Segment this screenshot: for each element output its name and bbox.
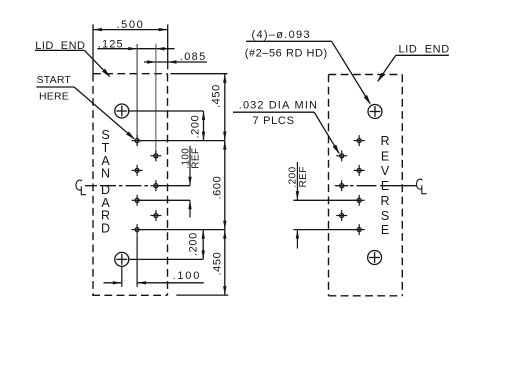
right plate outline right edge <box>401 75 403 296</box>
centerline symbol left <box>76 180 86 195</box>
row 4 centerline stub at CL <box>85 185 97 187</box>
bottom .100 extension line from fiducial <box>121 267 123 287</box>
svg-text:.500: .500 <box>117 19 145 31</box>
svg-text:R: R <box>380 134 389 148</box>
bottom fiducial target left plate <box>115 252 129 266</box>
dimension .200 bottom arrowhead up <box>202 230 205 239</box>
svg-text:R: R <box>380 194 389 208</box>
right plate outline left edge <box>328 75 330 296</box>
svg-text:.200: .200 <box>288 166 299 187</box>
right plate row 4 hole arm line <box>335 185 349 187</box>
top extension line for .450 <box>171 73 228 75</box>
dimension .100 REF line upper <box>189 146 191 186</box>
svg-text:7 PLCS: 7 PLCS <box>253 115 295 127</box>
right plate centerline stub to CL <box>397 185 418 187</box>
top fiducial line left plate <box>128 110 203 112</box>
dimension .500 line <box>93 29 168 31</box>
svg-text:.600: .600 <box>212 176 224 200</box>
right plate outline top edge <box>329 74 403 76</box>
hole B4 left plate <box>150 180 161 191</box>
dimension .500 right arrowhead <box>159 28 168 31</box>
svg-text:(4)–ø.093: (4)–ø.093 <box>252 29 311 41</box>
bottom .100 left arrowhead <box>137 281 146 284</box>
svg-text:D: D <box>101 222 110 236</box>
dimension .500 extension line left <box>92 24 94 73</box>
dimension .450 bottom arrowhead up <box>223 230 226 239</box>
dimension .450 top arrowhead up <box>223 74 226 83</box>
leader LID END left <box>35 50 111 77</box>
svg-text:START: START <box>37 74 72 86</box>
dimension .125 arrowhead at column B <box>156 47 165 50</box>
dimension .450 top line <box>224 74 226 141</box>
bottom fiducial line left plate <box>128 258 203 260</box>
dimension .200 REF line lower <box>296 230 298 249</box>
svg-text:REF: REF <box>191 148 202 169</box>
top fiducial target left plate <box>115 104 129 118</box>
dimension .500 extension line right <box>167 24 169 69</box>
dimension .450 bottom arrowhead down <box>223 286 226 295</box>
svg-text:V: V <box>381 164 390 178</box>
dimension .200 top arrowhead up <box>202 111 205 120</box>
svg-text:.125: .125 <box>98 38 124 50</box>
svg-text:(#2–56 RD HD): (#2–56 RD HD) <box>245 47 328 59</box>
bottom fiducial target right plate <box>368 251 382 265</box>
svg-text:E: E <box>381 179 389 193</box>
dimension .100 REF down arrowhead <box>188 177 191 186</box>
svg-text:LID END: LID END <box>399 44 450 56</box>
bottom extension line for .450 <box>176 294 228 296</box>
dimension .200 bottom line <box>202 230 204 260</box>
svg-text:LID END: LID END <box>35 40 85 52</box>
svg-text:.200: .200 <box>190 115 202 139</box>
svg-text:.100: .100 <box>173 270 202 282</box>
column B extension line <box>155 44 157 162</box>
left plate outline bottom edge <box>92 294 167 296</box>
left plate outline top edge <box>93 73 168 75</box>
right plate row 7 line <box>293 229 359 231</box>
row 4 centerline dash-dot <box>100 185 151 187</box>
row 4 solid line right of hole <box>156 185 190 187</box>
hole B7 right plate <box>354 224 365 235</box>
bottom .100 right arrowhead <box>113 281 122 284</box>
dimension .085 arrowhead at column B <box>147 60 156 63</box>
vertical label STANDARD <box>101 128 110 236</box>
centerline symbol right <box>416 179 426 194</box>
dimension .200 REF down arrowhead <box>296 191 299 200</box>
hole A4 right plate <box>336 180 347 191</box>
hole A6 right plate <box>336 210 347 221</box>
dimension .600 arrowhead down <box>223 221 226 230</box>
row 1 line <box>137 140 225 142</box>
hole A7 left plate <box>132 224 143 235</box>
dimension .125 arrowhead at column A <box>128 47 137 50</box>
dimension .600 line <box>224 141 226 230</box>
hole A2 right plate <box>336 150 347 161</box>
svg-text:R: R <box>101 209 110 223</box>
hole A3 left plate <box>132 165 143 176</box>
svg-text:T: T <box>102 141 110 155</box>
left plate outline left edge <box>92 74 94 296</box>
leader LID END right <box>377 55 449 82</box>
svg-text:E: E <box>381 223 389 237</box>
svg-text:N: N <box>101 167 110 181</box>
bottom .100 extension line from hole column A <box>136 235 138 287</box>
hole B1 right plate <box>354 135 365 146</box>
right plate row 5 line <box>293 199 359 201</box>
dimension .500 left arrowhead <box>93 28 102 31</box>
hole A1 left plate <box>132 135 143 146</box>
top fiducial target right plate <box>368 105 382 119</box>
svg-text:.200: .200 <box>188 232 200 256</box>
dimension .100 REF up arrowhead <box>188 201 191 210</box>
svg-text:.450: .450 <box>212 252 224 276</box>
dimension .200 top line <box>203 111 205 141</box>
svg-text:S: S <box>101 128 109 142</box>
dimension .600 arrowhead up <box>223 141 226 150</box>
right plate outline bottom edge <box>329 295 403 297</box>
svg-text:.032 DIA MIN: .032 DIA MIN <box>239 99 318 111</box>
svg-text:REF: REF <box>298 166 309 187</box>
column A extension line <box>136 44 138 146</box>
leader START HERE <box>36 87 135 140</box>
leader .032 DIA MIN <box>233 112 340 154</box>
dimension .200 REF line upper <box>296 162 298 200</box>
dimension .450 top arrowhead down <box>223 132 226 141</box>
hole A5 left plate <box>132 195 143 206</box>
bottom .100 dimension right tail <box>137 282 204 284</box>
svg-text:.085: .085 <box>180 51 207 63</box>
dimension .200 bottom arrowhead down <box>202 250 205 259</box>
hole B2 left plate <box>150 150 161 161</box>
svg-text:S: S <box>381 209 389 223</box>
dimension .085 arrowhead at right extension <box>168 60 177 63</box>
right plate row 4 centerline dash-dot <box>350 185 401 187</box>
svg-text:HERE: HERE <box>39 90 69 102</box>
row 7 line <box>137 229 225 231</box>
vertical label REVERSE <box>380 134 389 237</box>
dimension .085 line <box>144 61 207 63</box>
hole B6 left plate <box>150 210 161 221</box>
left plate outline right edge <box>167 74 169 296</box>
dimension .200 top arrowhead down <box>202 132 205 141</box>
bottom .100 dimension left tail <box>104 282 122 284</box>
hole B5 right plate <box>354 195 365 206</box>
svg-text:E: E <box>381 149 389 163</box>
leader (4)-dia .093 <box>246 41 371 105</box>
svg-text:.450: .450 <box>211 84 223 108</box>
svg-text:.100: .100 <box>180 148 191 169</box>
dimension .450 bottom line <box>224 230 226 296</box>
dimension .100 REF line lower <box>189 200 191 217</box>
dimension .125 line <box>97 48 174 50</box>
hole B3 right plate <box>354 165 365 176</box>
row 5 line <box>137 199 190 201</box>
dimension .200 REF up arrowhead <box>296 230 299 239</box>
svg-text:A: A <box>101 196 110 210</box>
